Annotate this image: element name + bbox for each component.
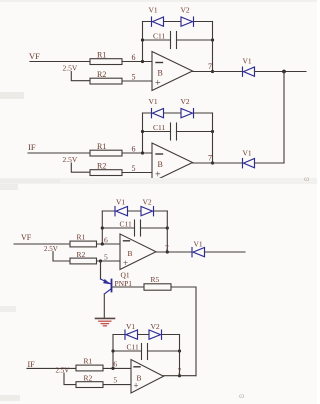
svg-text:V2: V2 [181,6,190,15]
svg-text:ω: ω [304,174,309,183]
junction cap-right [211,130,214,133]
svg-text:VF: VF [29,51,40,61]
junction pin6/feedback [141,151,144,154]
svg-text:V1: V1 [126,322,135,331]
resistor R5 [144,275,171,290]
wire Q1 collector to ground [103,294,105,318]
wire feedback right vertical [212,113,214,163]
svg-text:5: 5 [113,376,117,385]
scan streak top edge [0,0,317,2]
wire R2 to op-amp pin 5 [122,172,152,174]
wire OR-node vertical [283,72,285,164]
svg-text:+: + [134,381,139,391]
wire capacitor branch [143,131,213,133]
wire output pin 7 [156,251,192,253]
ground [96,318,115,325]
svg-text:5: 5 [132,164,136,173]
svg-text:V2: V2 [151,322,160,331]
wire feedback top branch [143,112,213,114]
svg-text:C11: C11 [153,32,165,41]
wire feedback top branch [113,334,180,336]
svg-text:V2: V2 [181,97,190,106]
resistor R1 (top fig, ch B) [90,142,122,156]
diode V1 (top fig ch B feedback) [152,109,164,118]
op-amp U1 [152,52,193,91]
junction cap-left [141,38,144,41]
svg-text:VF: VF [21,233,32,242]
wire R2 to op-amp pin 5 [97,260,121,262]
wire diode to junction [255,71,307,73]
wire capacitor branch [102,227,167,229]
junction pin6/feedback [111,367,114,370]
resistor R2 (top fig, ch A) [90,70,122,84]
diode V1 (bottom fig ch D feedback) [125,330,138,339]
svg-text:6: 6 [104,236,108,245]
svg-text:R1: R1 [97,142,106,151]
junction pin5/Q1 emitter [99,259,102,262]
svg-text:2.5V: 2.5V [56,367,70,375]
svg-text:B: B [128,249,133,258]
junction output/feedback [211,161,214,164]
svg-text:7: 7 [208,154,212,163]
wire IF input [28,152,90,154]
wire feedback right vertical [179,335,181,376]
svg-text:7: 7 [178,367,182,376]
svg-text:IF: IF [28,142,36,152]
diode V1 (top fig ch A feedback) [152,17,164,26]
resistor R1 (bottom fig, ch D) [76,357,103,371]
wire R2 to op-amp pin 5 [103,384,131,386]
wire R1 to op-amp pin 6 [103,367,131,369]
diode V2 (bottom fig ch C feedback) [141,207,154,216]
svg-text:R1: R1 [77,233,86,242]
resistor R1 (bottom fig, ch C) [70,233,97,247]
wire feedback left vertical [101,211,103,244]
svg-text:2.5V: 2.5V [44,245,58,253]
wire VF input [14,243,70,245]
svg-text:+: + [123,258,128,268]
junction cap-left [101,226,104,229]
svg-text:5: 5 [104,253,108,262]
scan smudge left edge 1 [0,92,24,99]
diode V2 (top fig ch B feedback) [181,109,194,118]
wire 2.5V L-drop [53,252,70,261]
svg-text:2.5V: 2.5V [63,64,78,73]
svg-text:V1: V1 [116,198,125,207]
svg-text:B: B [158,160,163,169]
svg-text:C11: C11 [120,220,132,229]
junction OR-node [282,70,286,74]
svg-text:V1: V1 [194,240,203,249]
wire output pin 7 [193,162,243,164]
svg-text:7: 7 [208,62,212,71]
wire R1 to op-amp pin 6 [122,152,152,154]
wire 2.5V L-drop [64,373,76,384]
svg-text:7: 7 [165,244,169,253]
wire R1 to op-amp pin 6 [97,243,121,245]
scan smudge left edge 2 [0,178,317,184]
diode V1 (bottom fig ch C output) [192,248,205,257]
op-amp U4 [131,360,164,394]
wire output to the right [205,251,246,253]
op-amp U3 [120,234,156,270]
svg-text:V2: V2 [143,198,152,207]
wire feedback top branch [102,210,167,212]
svg-text:+: + [155,78,161,89]
wire feedback left vertical [142,22,144,62]
resistor R1 (top fig, ch A) [90,51,122,65]
junction cap-right [211,38,214,41]
wire feedback left vertical [142,113,144,153]
capacitor C11 (bottom fig ch C) [120,220,141,237]
junction cap-right [166,226,169,229]
svg-text:R2: R2 [84,374,93,383]
svg-text:2.5V: 2.5V [63,155,78,164]
wire 2.5V L-drop [71,72,90,81]
wire 2.5V L-drop [71,163,90,172]
svg-text:V1: V1 [149,97,158,106]
junction output/feedback [166,250,169,253]
scan smudge left edge 5 [0,395,20,401]
svg-text:R2: R2 [77,250,86,259]
wire IF input [27,367,76,369]
svg-text:V1: V1 [149,6,158,15]
svg-text:5: 5 [132,73,136,82]
svg-text:R5: R5 [151,275,160,284]
wire feedback right vertical [166,211,168,252]
svg-text:B: B [158,69,163,78]
wire R2 to op-amp pin 5 [122,80,152,82]
wire feedback top branch [143,21,213,23]
wire feedback left vertical [112,335,114,369]
diode V2 (top fig ch A feedback) [181,17,194,26]
svg-text:R1: R1 [97,51,106,60]
capacitor C11 (bottom fig ch D) [127,343,148,360]
svg-text:V1: V1 [243,57,252,66]
svg-text:R2: R2 [97,70,106,79]
diode V2 (bottom fig ch D feedback) [149,330,162,339]
svg-text:C11: C11 [127,343,139,352]
wire diode to OR-node corner [255,162,285,164]
diode V1 (top fig ch A output) [243,67,255,76]
wire capacitor branch [113,350,180,352]
junction cap-left [111,349,114,352]
junction pin6/feedback [101,242,104,245]
transistor Q1 (PNP) [101,261,112,294]
junction pin6/feedback [141,60,144,63]
svg-text:6: 6 [132,53,136,62]
svg-text:IF: IF [28,360,36,369]
svg-text:V1: V1 [243,149,252,158]
capacitor C11 (top fig ch B) [153,123,177,140]
wire VF input [30,61,90,63]
resistor R2 (bottom fig, ch D) [76,374,103,388]
svg-text:6: 6 [113,360,117,369]
wire Q1 base to R5 [113,286,145,288]
resistor R2 (top fig, ch B) [90,161,122,175]
diode V1 (top fig ch B output) [243,159,255,168]
wire capacitor branch [143,39,213,41]
scan smudge left edge 3 [0,184,18,190]
wire feedback right vertical [212,22,214,72]
junction cap-left [141,130,144,133]
capacitor C11 (top fig ch A) [153,32,177,49]
op-amp U2 [152,143,193,182]
resistor R2 (bottom fig, ch C) [70,250,97,264]
junction output/feedback [178,374,181,377]
scan smudge left edge 4 [0,306,16,312]
svg-text:R1: R1 [84,357,93,366]
wire output pin 7 [193,71,243,73]
wire output pin 7 [164,375,197,377]
diode V1 (bottom fig ch C feedback) [115,207,128,216]
junction cap-right [178,349,181,352]
svg-text:R2: R2 [97,161,106,170]
junction output/feedback [211,70,214,73]
wire R1 to op-amp pin 6 [122,61,152,63]
wire R5 to right vertical [171,287,196,376]
svg-text:ω: ω [239,391,244,400]
svg-text:6: 6 [132,145,136,154]
svg-text:C11: C11 [153,123,165,132]
